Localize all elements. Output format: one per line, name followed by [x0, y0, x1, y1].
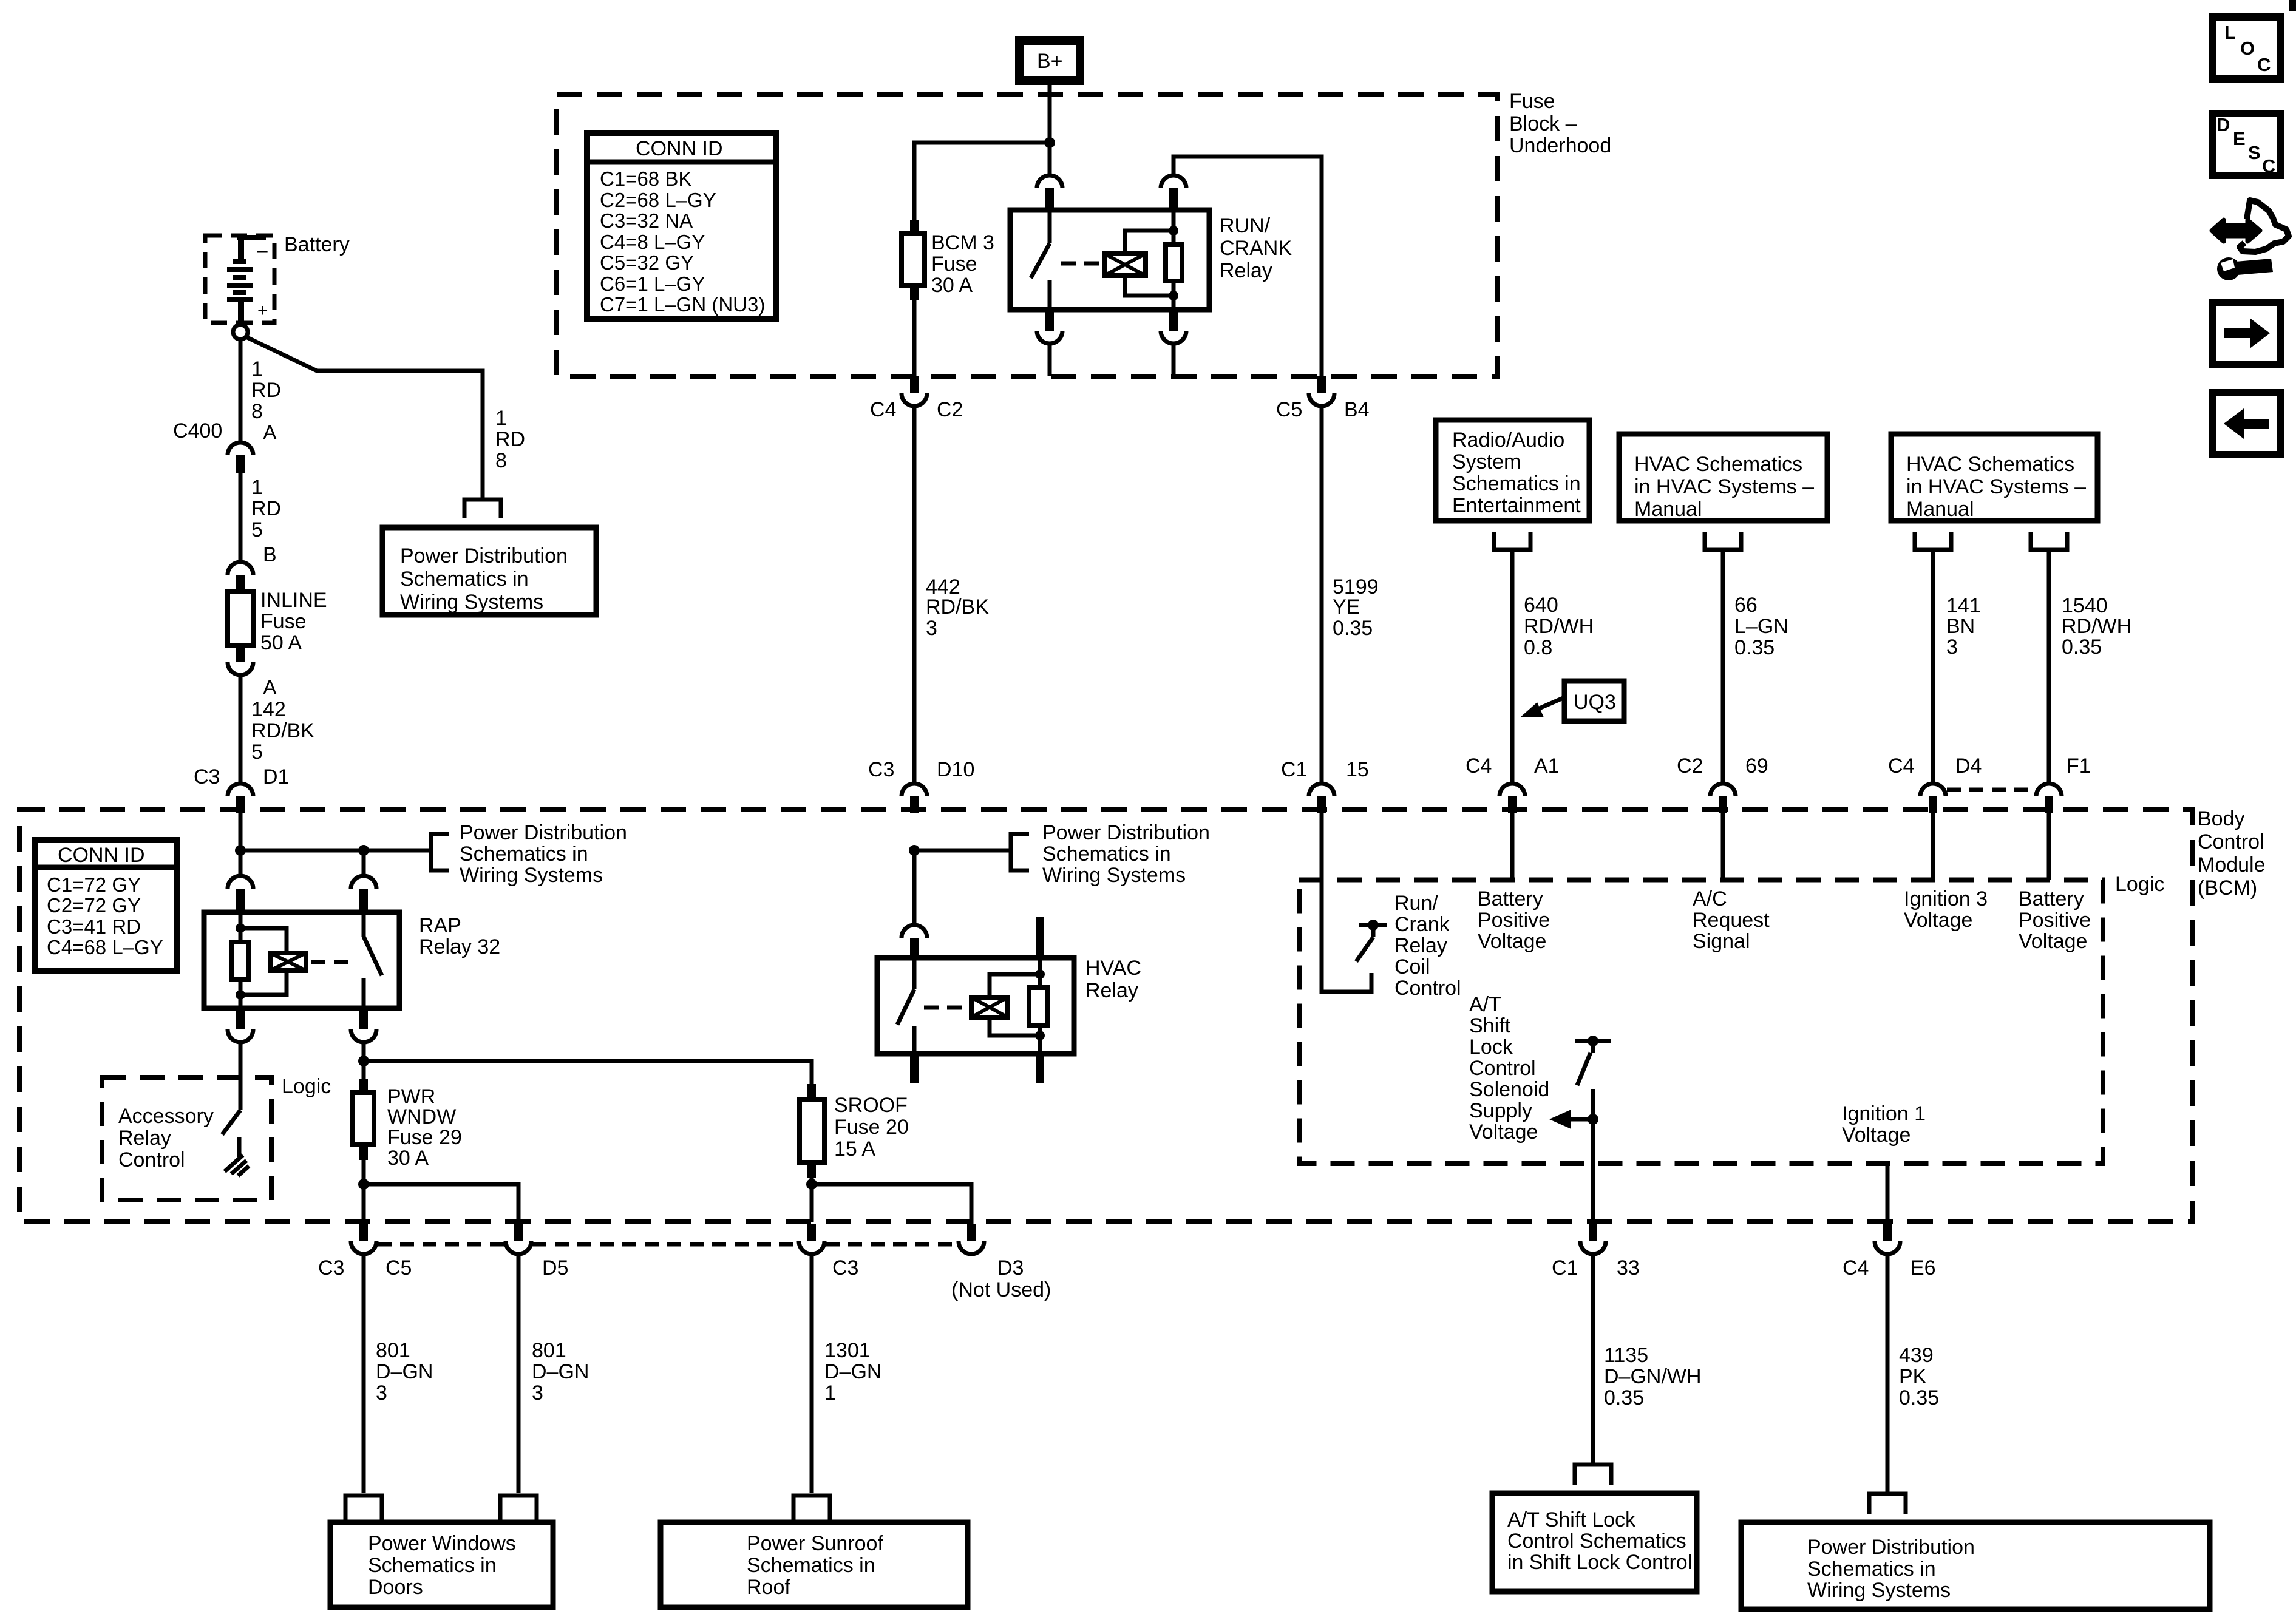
- destination bracket: [431, 834, 449, 870]
- destination bracket (1301 wire): [793, 1496, 830, 1520]
- svg-text:INLINE: INLINE: [260, 589, 327, 612]
- junction (C3/D3 split): [806, 1179, 817, 1190]
- connector C4/C2 (fuse block exit): [870, 376, 963, 421]
- switch: [912, 958, 917, 989]
- svg-text:Battery: Battery: [1478, 887, 1543, 910]
- svg-text:D10: D10: [937, 758, 974, 781]
- svg-text:C6=1 L–GY: C6=1 L–GY: [600, 273, 705, 295]
- svg-text:5: 5: [251, 518, 263, 541]
- svg-text:in HVAC Systems –: in HVAC Systems –: [1634, 475, 1814, 498]
- coil suppression resistor: [1166, 245, 1182, 281]
- svg-text:Control: Control: [1394, 977, 1461, 1000]
- coil pin connector (top left): [228, 876, 253, 889]
- svg-text:Positive: Positive: [2019, 909, 2091, 932]
- svg-text:Entertainment: Entertainment: [1452, 494, 1581, 517]
- svg-text:A/C: A/C: [1693, 887, 1727, 910]
- svg-text:3: 3: [376, 1381, 387, 1405]
- svg-text:Coil: Coil: [1394, 955, 1430, 978]
- svg-text:Relay 32: Relay 32: [419, 935, 500, 958]
- svg-text:D3: D3: [997, 1256, 1024, 1280]
- wire 141 BN 3: [1931, 550, 1935, 784]
- destination bracket: [1011, 834, 1029, 870]
- svg-text:Manual: Manual: [1634, 498, 1702, 521]
- svg-text:Ignition 3: Ignition 3: [1904, 887, 1988, 910]
- svg-text:0.35: 0.35: [1734, 636, 1775, 659]
- svg-text:A/T: A/T: [1469, 993, 1501, 1016]
- svg-text:1540: 1540: [2062, 594, 2108, 617]
- fuse SROOF 20 15 A: [800, 1084, 909, 1178]
- svg-text:801: 801: [376, 1339, 410, 1362]
- svg-text:B: B: [263, 543, 277, 566]
- connector C4/A1 (BCM entry): [1466, 754, 1560, 813]
- connector C2/69 (BCM entry): [1677, 754, 1768, 813]
- svg-text:Control: Control: [118, 1148, 185, 1171]
- power feed B+: [1019, 41, 1080, 81]
- wire F1 to logic: [2047, 813, 2051, 880]
- svg-text:Logic: Logic: [282, 1075, 331, 1098]
- CONN ID table (BCM): [35, 840, 177, 971]
- wire 442 RD/BK 3: [912, 406, 917, 784]
- svg-text:Signal: Signal: [1693, 930, 1750, 953]
- svg-text:D: D: [2216, 114, 2230, 135]
- actuator dashes: [924, 1006, 969, 1010]
- svg-text:CRANK: CRANK: [1220, 237, 1292, 260]
- svg-text:Fuse: Fuse: [260, 610, 307, 633]
- svg-text:69: 69: [1745, 754, 1768, 778]
- svg-text:Battery: Battery: [284, 233, 350, 256]
- svg-text:0.8: 0.8: [1524, 636, 1552, 659]
- icon: hand with wrench and double arrow: [2212, 200, 2289, 280]
- wire 439 PK 0.35: [1886, 1254, 1890, 1493]
- source bracket (141): [1915, 532, 1951, 550]
- svg-text:C5=32 GY: C5=32 GY: [600, 251, 694, 274]
- svg-text:C400: C400: [173, 419, 222, 442]
- connector C400 pin A: [173, 419, 277, 473]
- svg-text:C1: C1: [1281, 758, 1307, 781]
- svg-text:HVAC Schematics: HVAC Schematics: [1634, 453, 1802, 476]
- svg-text:Doors: Doors: [368, 1576, 423, 1599]
- switch pin connector (top right): [351, 876, 376, 889]
- svg-text:141: 141: [1946, 594, 1981, 617]
- svg-text:Underhood: Underhood: [1509, 134, 1611, 157]
- svg-text:C4=68 L–GY: C4=68 L–GY: [47, 936, 163, 958]
- connector C4/E6 (BCM exit): [1843, 1224, 1936, 1280]
- svg-text:Schematics in: Schematics in: [1042, 842, 1171, 866]
- svg-text:Control: Control: [1469, 1057, 1536, 1080]
- svg-text:1: 1: [251, 358, 263, 381]
- svg-text:Wiring Systems: Wiring Systems: [1042, 864, 1186, 887]
- svg-text:Logic: Logic: [2115, 873, 2164, 896]
- destination bracket (D5 wire): [500, 1496, 537, 1520]
- svg-text:30 A: 30 A: [387, 1147, 429, 1170]
- wire RAP coil return to accessory switch: [239, 1042, 243, 1110]
- svg-text:640: 640: [1524, 594, 1558, 617]
- svg-text:D–GN: D–GN: [824, 1360, 881, 1383]
- svg-text:33: 33: [1617, 1256, 1640, 1280]
- svg-text:in HVAC Systems –: in HVAC Systems –: [1906, 475, 2086, 498]
- svg-text:Module: Module: [2198, 853, 2266, 876]
- box: HVAC Schematics in HVAC Systems - Manual (1): [1619, 434, 1827, 521]
- switch: [362, 912, 366, 937]
- svg-text:Run/: Run/: [1394, 892, 1438, 915]
- connector C3/D10 (BCM entry): [868, 758, 974, 813]
- svg-text:F1: F1: [2067, 754, 2091, 778]
- svg-text:Schematics in: Schematics in: [368, 1554, 497, 1577]
- wire 1135 D-GN/WH 0.35: [1591, 1254, 1595, 1463]
- svg-text:C4: C4: [870, 398, 896, 421]
- svg-text:1135: 1135: [1604, 1344, 1648, 1367]
- svg-text:Voltage: Voltage: [1904, 909, 1972, 932]
- svg-text:Accessory: Accessory: [118, 1105, 214, 1128]
- connector C1/33 (BCM exit): [1552, 1224, 1640, 1280]
- coil return pin (bottom left): [239, 995, 243, 1008]
- wire 142 RD/BK 5: [239, 675, 243, 784]
- svg-text:D1: D1: [263, 765, 289, 788]
- svg-text:A: A: [263, 421, 277, 444]
- wire junction down to relay: [1048, 143, 1052, 176]
- wire C400 to B: [239, 473, 243, 562]
- wire C1/15 to run/crank coil control: [1322, 813, 1371, 992]
- svg-text:Roof: Roof: [747, 1576, 790, 1599]
- svg-text:C2: C2: [1677, 754, 1703, 778]
- svg-text:C4: C4: [1466, 754, 1492, 778]
- svg-text:+: +: [257, 300, 268, 320]
- svg-text:50 A: 50 A: [260, 631, 302, 654]
- wire 69 to logic: [1721, 813, 1725, 880]
- wire fuse to junction: [810, 1178, 814, 1184]
- wire B+ down: [1048, 85, 1052, 143]
- svg-text:Lock: Lock: [1469, 1036, 1513, 1059]
- svg-text:Crank: Crank: [1394, 913, 1450, 936]
- wire junction to fuse: [914, 143, 1050, 221]
- wire ignition 1 voltage to C4/E6: [1886, 1164, 1890, 1222]
- connector C3 pin D1: [194, 765, 289, 813]
- svg-text:Power Distribution: Power Distribution: [460, 821, 627, 844]
- svg-text:Fuse 20: Fuse 20: [834, 1116, 909, 1139]
- svg-text:C3=32 NA: C3=32 NA: [600, 209, 693, 232]
- fuse BCM 3 30 A: [902, 220, 994, 300]
- svg-text:142: 142: [251, 698, 286, 721]
- svg-text:1301: 1301: [824, 1339, 871, 1362]
- svg-text:Body: Body: [2198, 807, 2245, 830]
- destination bracket: [464, 500, 501, 518]
- svg-text:C3=41 RD: C3=41 RD: [47, 915, 141, 938]
- svg-text:CONN ID: CONN ID: [636, 137, 723, 160]
- wire fuse to junction: [362, 1160, 366, 1184]
- svg-text:66: 66: [1734, 594, 1758, 617]
- svg-text:C5: C5: [1276, 398, 1302, 421]
- wire fuse to C4/C2: [912, 300, 917, 376]
- destination bracket (1135 wire): [1575, 1465, 1611, 1485]
- svg-text:RUN/: RUN/: [1220, 214, 1271, 237]
- svg-text:Fuse: Fuse: [931, 253, 977, 276]
- icon box left arrow: [2213, 393, 2281, 455]
- svg-text:1: 1: [251, 476, 263, 499]
- svg-text:3: 3: [1946, 636, 1958, 659]
- svg-text:C1=68 BK: C1=68 BK: [600, 168, 691, 190]
- svg-text:E6: E6: [1911, 1256, 1936, 1280]
- svg-text:C3: C3: [194, 765, 220, 788]
- svg-text:RD: RD: [251, 379, 281, 402]
- source bracket (1540): [2031, 532, 2067, 550]
- svg-text:C: C: [2257, 54, 2271, 75]
- svg-text:Fuse 29: Fuse 29: [387, 1126, 462, 1149]
- svg-text:PK: PK: [1899, 1365, 1927, 1388]
- svg-text:RD/WH: RD/WH: [1524, 615, 1594, 638]
- junction (battery feed): [235, 845, 246, 856]
- svg-text:O: O: [2240, 38, 2255, 59]
- connector C4/D4 (BCM entry): [1888, 754, 1982, 813]
- connector jog (dashed) D4-F1: [1947, 788, 2036, 792]
- Body Control Module (BCM) dashed box: [19, 809, 2192, 1222]
- svg-text:Schematics in: Schematics in: [1452, 472, 1581, 495]
- wire to C3 exit: [810, 1184, 814, 1222]
- wire D4 to logic: [1931, 813, 1935, 880]
- svg-text:–: –: [257, 240, 268, 260]
- box: A/T Shift Lock Control Schematics in Shift Lock Control: [1492, 1493, 1697, 1592]
- switch output pin stub: [910, 1054, 919, 1083]
- svg-text:Wiring Systems: Wiring Systems: [1807, 1579, 1951, 1602]
- coil suppression resistor: [1029, 988, 1047, 1025]
- junction (PWR WNDW / SROOF feed): [358, 1056, 369, 1066]
- icon box LOC: [2213, 17, 2281, 79]
- svg-text:Control Schematics: Control Schematics: [1507, 1530, 1686, 1553]
- svg-text:Power Sunroof: Power Sunroof: [747, 1532, 883, 1555]
- wire to C5 exit: [362, 1184, 366, 1222]
- svg-text:Voltage: Voltage: [1478, 930, 1546, 953]
- svg-text:Ignition 1: Ignition 1: [1842, 1102, 1926, 1125]
- svg-text:L: L: [2224, 22, 2236, 43]
- svg-text:E: E: [2233, 128, 2246, 149]
- fuse PWR WNDW 29 30 A: [353, 1079, 462, 1170]
- svg-text:S: S: [2248, 142, 2261, 163]
- connector pin B: [228, 543, 277, 592]
- svg-text:Schematics in: Schematics in: [747, 1554, 875, 1577]
- accessory relay control switch: [222, 1110, 240, 1157]
- svg-text:RD: RD: [495, 428, 525, 451]
- wire RAP switch output to junction: [362, 1042, 366, 1061]
- relay HVAC: [877, 845, 1141, 1083]
- ground: [225, 1155, 249, 1176]
- wire 1540 RD/WH 0.35: [2047, 550, 2051, 784]
- icon box DESC: [2213, 114, 2281, 177]
- actuator dashes: [1061, 262, 1101, 266]
- svg-text:Power Distribution: Power Distribution: [1807, 1536, 1975, 1559]
- svg-text:D5: D5: [542, 1256, 568, 1280]
- wire D1 junction row: [240, 849, 431, 853]
- svg-text:Block –: Block –: [1509, 112, 1577, 135]
- svg-text:Relay: Relay: [118, 1127, 171, 1150]
- svg-text:Battery: Battery: [2019, 887, 2084, 910]
- relay coil: [240, 928, 287, 953]
- svg-text:Relay: Relay: [1394, 934, 1447, 957]
- wire 66 L-GN 0.35: [1721, 550, 1725, 784]
- wire D1 into BCM: [239, 813, 243, 853]
- svg-text:Shift: Shift: [1469, 1014, 1511, 1037]
- svg-text:Positive: Positive: [1478, 909, 1550, 932]
- wire battery to C400: [239, 339, 243, 442]
- wire branch to power distribution: [245, 336, 483, 498]
- svg-text:Power Distribution: Power Distribution: [1042, 821, 1210, 844]
- relay RAP 32: [204, 876, 500, 1042]
- node: battery positive terminal: [233, 325, 248, 339]
- svg-text:A1: A1: [1534, 754, 1560, 778]
- svg-text:Wiring Systems: Wiring Systems: [460, 864, 603, 887]
- box: Power Windows Schematics in Doors: [330, 1522, 553, 1607]
- svg-text:C2=72 GY: C2=72 GY: [47, 894, 141, 917]
- svg-text:C5: C5: [385, 1256, 412, 1280]
- svg-text:C: C: [2262, 155, 2275, 177]
- box: Radio/Audio System Schematics in Entertainment: [1436, 420, 1589, 521]
- connector pin A (below fuse): [228, 646, 277, 699]
- actuator dashes: [311, 960, 355, 964]
- accessory relay control (dashed logic box): [102, 1077, 271, 1200]
- option box UQ3 with arrow: [1521, 681, 1624, 721]
- svg-text:Manual: Manual: [1906, 498, 1974, 521]
- wire junction to SROOF fuse: [364, 1061, 812, 1084]
- svg-text:UQ3: UQ3: [1574, 691, 1616, 714]
- connector row (fine dashed): [378, 1242, 958, 1247]
- wire junction to RAP switch: [362, 850, 366, 876]
- run/crank relay coil control switch: [1356, 920, 1387, 961]
- svg-text:RD: RD: [251, 497, 281, 520]
- svg-text:Supply: Supply: [1469, 1099, 1532, 1122]
- svg-text:3: 3: [926, 617, 937, 640]
- svg-text:C1=72 GY: C1=72 GY: [47, 873, 141, 896]
- fuse INLINE 50 A: [228, 589, 327, 654]
- svg-text:1: 1: [495, 407, 507, 430]
- svg-text:Schematics in: Schematics in: [1807, 1558, 1936, 1581]
- CONN ID table (fuse block): [587, 133, 776, 319]
- svg-text:WNDW: WNDW: [387, 1105, 456, 1128]
- connector C5/B4 (fuse block exit): [1276, 376, 1370, 421]
- svg-text:RD/BK: RD/BK: [251, 719, 314, 742]
- svg-text:Control: Control: [2198, 830, 2264, 853]
- svg-text:Schematics in: Schematics in: [460, 842, 588, 866]
- wire 640 RD/WH 0.8: [1510, 550, 1515, 784]
- wire 5199 YE 0.35: [1320, 406, 1324, 784]
- wire 1301 D-GN 1: [810, 1254, 814, 1493]
- svg-text:A/T Shift Lock: A/T Shift Lock: [1507, 1508, 1636, 1531]
- svg-text:Radio/Audio: Radio/Audio: [1452, 429, 1564, 452]
- box: HVAC Schematics in HVAC Systems - Manual (2): [1891, 434, 2097, 521]
- source bracket: [1494, 532, 1530, 550]
- svg-text:439: 439: [1899, 1344, 1934, 1367]
- wire to D5: [364, 1184, 518, 1224]
- svg-text:0.35: 0.35: [1604, 1386, 1644, 1409]
- svg-text:L–GN: L–GN: [1734, 615, 1788, 638]
- box: Power Sunroof Schematics in Roof: [661, 1522, 968, 1607]
- svg-text:C3: C3: [318, 1256, 344, 1280]
- svg-text:Schematics in: Schematics in: [400, 568, 529, 591]
- switch output pin (bottom right): [359, 1008, 368, 1029]
- connector C3 (BCM exit, SROOF): [799, 1224, 858, 1280]
- svg-text:15 A: 15 A: [834, 1137, 875, 1161]
- svg-text:C7=1 L–GN (NU3): C7=1 L–GN (NU3): [600, 293, 765, 316]
- connector D5 (BCM exit): [506, 1224, 568, 1280]
- svg-text:Voltage: Voltage: [2019, 930, 2087, 953]
- svg-text:Solenoid: Solenoid: [1469, 1078, 1549, 1101]
- coil pin connector (top right): [1172, 210, 1176, 231]
- battery (dashed enclosure): [205, 236, 274, 323]
- relay RUN/CRANK: [1010, 175, 1292, 376]
- svg-text:Wiring Systems: Wiring Systems: [400, 591, 543, 614]
- source bracket: [1705, 532, 1741, 550]
- svg-text:RD/WH: RD/WH: [2062, 615, 2131, 638]
- svg-text:RAP: RAP: [419, 914, 461, 937]
- svg-text:(Not Used): (Not Used): [951, 1278, 1051, 1301]
- svg-text:Relay: Relay: [1085, 979, 1138, 1002]
- box: Power Distribution Schematics in Wiring Systems: [1741, 1522, 2210, 1609]
- switch: [1048, 210, 1052, 243]
- feed connector from D10: [912, 853, 917, 925]
- svg-text:Voltage: Voltage: [1842, 1124, 1911, 1147]
- wire junction to RAP coil: [239, 850, 243, 876]
- svg-text:D–GN: D–GN: [376, 1360, 433, 1383]
- junction: [1044, 137, 1055, 148]
- svg-text:0.35: 0.35: [2062, 636, 2102, 659]
- coil suppression resistor: [231, 942, 248, 980]
- svg-text:8: 8: [495, 449, 507, 472]
- wire 801 D-GN 3 (D5): [517, 1254, 521, 1493]
- destination bracket (C5 wire): [345, 1496, 382, 1520]
- battery symbol: [227, 237, 268, 324]
- svg-text:BCM 3: BCM 3: [931, 231, 994, 254]
- A/T shift lock control switch: [1575, 1036, 1611, 1222]
- svg-text:in Shift Lock Control: in Shift Lock Control: [1507, 1551, 1692, 1574]
- svg-text:C4: C4: [1888, 754, 1914, 778]
- svg-text:A: A: [263, 676, 277, 699]
- junction (C5/D5 split): [358, 1179, 369, 1190]
- connector F1 (BCM entry): [2036, 754, 2091, 813]
- svg-text:5: 5: [251, 741, 263, 764]
- wire to D3: [812, 1184, 971, 1224]
- wire D10 junction to bracket: [914, 849, 1011, 853]
- svg-text:8: 8: [251, 400, 263, 423]
- destination bracket (439 wire): [1869, 1494, 1906, 1514]
- icon box right arrow: [2213, 302, 2281, 364]
- supply voltage arrow: [1549, 1110, 1598, 1129]
- pin (bottom right): [1169, 310, 1178, 331]
- svg-text:HVAC: HVAC: [1085, 957, 1141, 980]
- svg-text:Power Distribution: Power Distribution: [400, 544, 568, 568]
- connector D3 (Not Used): [951, 1224, 1051, 1301]
- coil return pin stub (bottom right): [1038, 1036, 1042, 1054]
- svg-text:D–GN: D–GN: [532, 1360, 589, 1383]
- svg-text:C2=68 L–GY: C2=68 L–GY: [600, 189, 716, 211]
- svg-text:Relay: Relay: [1220, 259, 1272, 282]
- svg-text:RD/BK: RD/BK: [926, 595, 989, 619]
- connector C1/15 (BCM entry): [1281, 758, 1369, 813]
- wire A1 to logic: [1510, 813, 1515, 880]
- svg-text:C2: C2: [937, 398, 963, 421]
- svg-text:15: 15: [1346, 758, 1369, 781]
- svg-text:(BCM): (BCM): [2198, 876, 2257, 900]
- svg-text:1: 1: [824, 1381, 836, 1405]
- wire junction to PWR WNDW fuse: [362, 1061, 366, 1079]
- svg-text:B+: B+: [1037, 50, 1063, 73]
- svg-text:C4: C4: [1843, 1256, 1869, 1280]
- svg-text:D4: D4: [1955, 754, 1982, 778]
- box: Power Distribution Schematics in Wiring Systems: [382, 527, 596, 615]
- svg-text:D–GN/WH: D–GN/WH: [1604, 1365, 1702, 1388]
- svg-text:CONN ID: CONN ID: [58, 844, 145, 867]
- svg-text:System: System: [1452, 450, 1521, 473]
- pin (bottom left): [1172, 296, 1176, 310]
- svg-text:30 A: 30 A: [931, 274, 973, 297]
- svg-text:C3: C3: [832, 1256, 858, 1280]
- svg-text:HVAC Schematics: HVAC Schematics: [1906, 453, 2074, 476]
